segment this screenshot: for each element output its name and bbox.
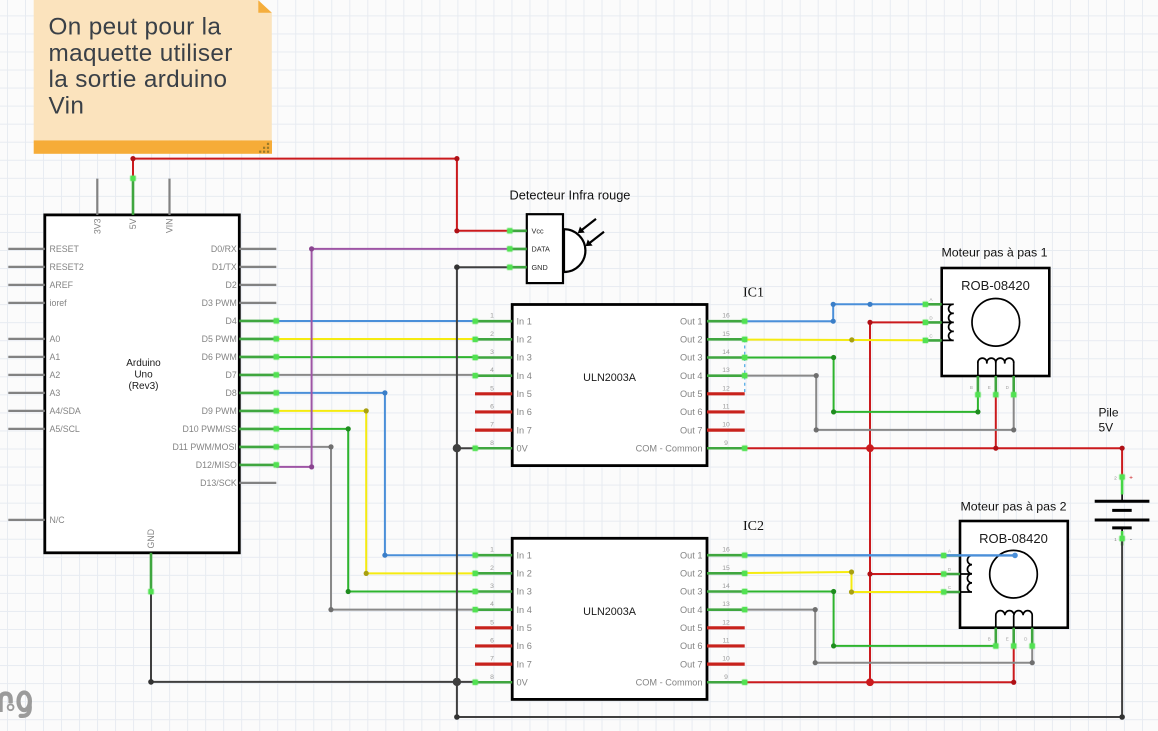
svg-text:RESET2: RESET2 <box>50 262 84 272</box>
svg-text:7: 7 <box>490 656 494 663</box>
svg-text:A2: A2 <box>50 370 61 380</box>
svg-text:In 4: In 4 <box>517 605 532 615</box>
svg-text:7: 7 <box>490 422 494 429</box>
svg-text:1: 1 <box>1114 537 1117 543</box>
svg-text:In 6: In 6 <box>517 407 532 417</box>
svg-text:D10 PWM/SS: D10 PWM/SS <box>183 424 237 434</box>
svg-text:12: 12 <box>722 619 730 626</box>
svg-text:Out 4: Out 4 <box>680 605 702 615</box>
svg-text:D13/SCK: D13/SCK <box>200 478 237 488</box>
svg-text:0V: 0V <box>517 443 529 453</box>
svg-text:D: D <box>948 567 952 572</box>
svg-text:1: 1 <box>490 547 494 554</box>
svg-text:Vin: Vin <box>49 93 85 120</box>
svg-text:11: 11 <box>722 637 729 644</box>
svg-text:9: 9 <box>724 440 728 447</box>
svg-text:COM - Common: COM - Common <box>636 677 703 687</box>
svg-text:Out 7: Out 7 <box>680 659 702 669</box>
svg-text:C: C <box>948 585 952 590</box>
svg-text:Out 2: Out 2 <box>680 335 702 345</box>
svg-text:Out 6: Out 6 <box>680 641 702 651</box>
svg-text:Out 5: Out 5 <box>680 389 702 399</box>
svg-text:Out 1: Out 1 <box>680 316 702 326</box>
svg-text:In 1: In 1 <box>517 316 532 326</box>
svg-text:6: 6 <box>490 637 494 644</box>
svg-text:(Rev3): (Rev3) <box>128 381 158 392</box>
svg-text:Uno: Uno <box>134 370 153 381</box>
svg-text:Moteur pas à pas 2: Moteur pas à pas 2 <box>960 500 1066 514</box>
svg-text:3V3: 3V3 <box>92 218 102 234</box>
svg-text:IC1: IC1 <box>743 286 764 301</box>
svg-text:In 6: In 6 <box>517 641 532 651</box>
svg-text:GND: GND <box>532 263 548 272</box>
svg-text:D: D <box>1006 385 1010 390</box>
svg-text:C: C <box>929 333 933 338</box>
svg-text:A4/SDA: A4/SDA <box>50 406 81 416</box>
svg-text:5V: 5V <box>1099 421 1114 435</box>
svg-text:ULN2003A: ULN2003A <box>583 372 637 384</box>
svg-text:A: A <box>929 297 932 302</box>
svg-text:15: 15 <box>722 331 730 338</box>
svg-text:ROB-08420: ROB-08420 <box>961 278 1030 293</box>
svg-text:D8: D8 <box>226 388 237 398</box>
svg-text:In 5: In 5 <box>517 389 532 399</box>
svg-text:Moteur pas à pas 1: Moteur pas à pas 1 <box>941 246 1047 260</box>
svg-text:13: 13 <box>722 601 730 608</box>
svg-text:11: 11 <box>722 403 729 410</box>
svg-text:Out 3: Out 3 <box>680 587 702 597</box>
svg-text:In 5: In 5 <box>517 623 532 633</box>
svg-text:14: 14 <box>722 349 730 356</box>
svg-text:A0: A0 <box>50 334 61 344</box>
svg-text:Out 1: Out 1 <box>680 550 702 560</box>
svg-text:D: D <box>1024 637 1028 642</box>
svg-text:ULN2003A: ULN2003A <box>583 606 637 618</box>
svg-text:In 2: In 2 <box>517 335 532 345</box>
svg-text:GND: GND <box>146 529 156 549</box>
svg-text:D1/TX: D1/TX <box>212 262 237 272</box>
svg-text:D4: D4 <box>226 316 237 326</box>
svg-text:3: 3 <box>490 349 494 356</box>
svg-text:5: 5 <box>490 385 494 392</box>
svg-text:Out 4: Out 4 <box>680 371 702 381</box>
svg-text:Arduino: Arduino <box>126 358 161 369</box>
svg-text:16: 16 <box>722 547 730 554</box>
svg-text:Out 3: Out 3 <box>680 353 702 363</box>
svg-text:2: 2 <box>1114 476 1117 482</box>
svg-text:5V: 5V <box>128 218 138 229</box>
svg-text:D2: D2 <box>226 280 237 290</box>
svg-text:D: D <box>929 315 933 320</box>
svg-text:+: + <box>1129 475 1133 482</box>
svg-text:8: 8 <box>490 440 494 447</box>
svg-text:In 2: In 2 <box>517 569 532 579</box>
svg-text:B: B <box>970 385 973 390</box>
svg-text:Pile: Pile <box>1099 406 1119 420</box>
svg-text:A3: A3 <box>50 388 61 398</box>
svg-text:10: 10 <box>722 656 730 663</box>
svg-text:12: 12 <box>722 385 730 392</box>
svg-text:On peut pour la: On peut pour la <box>49 14 222 41</box>
svg-text:la sortie arduino: la sortie arduino <box>49 66 228 93</box>
svg-text:B: B <box>988 637 991 642</box>
svg-text:Detecteur Infra rouge: Detecteur Infra rouge <box>510 188 631 203</box>
svg-text:D11 PWM/MOSI: D11 PWM/MOSI <box>172 442 236 452</box>
svg-text:1: 1 <box>490 313 494 320</box>
svg-text:E: E <box>988 385 991 390</box>
svg-text:Out 7: Out 7 <box>680 425 702 435</box>
svg-text:9: 9 <box>724 674 728 681</box>
svg-text:D0/RX: D0/RX <box>211 244 237 254</box>
svg-text:13: 13 <box>722 367 730 374</box>
svg-text:IC2: IC2 <box>743 519 764 534</box>
svg-text:Vcc: Vcc <box>532 227 545 236</box>
svg-text:In 1: In 1 <box>517 550 532 560</box>
svg-text:D3 PWM: D3 PWM <box>202 298 237 308</box>
svg-text:A: A <box>948 549 951 554</box>
svg-text:In 7: In 7 <box>517 425 532 435</box>
svg-text:In 3: In 3 <box>517 587 532 597</box>
svg-text:N/C: N/C <box>50 515 66 525</box>
svg-text:A5/SCL: A5/SCL <box>50 424 80 434</box>
svg-text:In 4: In 4 <box>517 371 532 381</box>
svg-text:In 7: In 7 <box>517 659 532 669</box>
svg-text:In 3: In 3 <box>517 353 532 363</box>
svg-text:D9 PWM: D9 PWM <box>202 406 237 416</box>
svg-text:14: 14 <box>722 583 730 590</box>
svg-text:D5 PWM: D5 PWM <box>202 334 237 344</box>
svg-text:5: 5 <box>490 619 494 626</box>
svg-text:8: 8 <box>490 674 494 681</box>
svg-text:4: 4 <box>490 601 494 608</box>
svg-text:2: 2 <box>490 565 494 572</box>
svg-text:DATA: DATA <box>532 245 551 254</box>
svg-text:maquette utiliser: maquette utiliser <box>49 40 233 67</box>
svg-text:15: 15 <box>722 565 730 572</box>
svg-text:AREF: AREF <box>50 280 74 290</box>
svg-text:10: 10 <box>722 422 730 429</box>
svg-text:ioref: ioref <box>50 298 68 308</box>
svg-text:0V: 0V <box>517 677 529 687</box>
svg-text:E: E <box>1006 637 1009 642</box>
svg-text:Out 2: Out 2 <box>680 569 702 579</box>
svg-text:D7: D7 <box>226 370 237 380</box>
svg-text:COM - Common: COM - Common <box>636 443 703 453</box>
svg-text:6: 6 <box>490 403 494 410</box>
svg-text:VIN: VIN <box>165 219 175 234</box>
svg-text:D6 PWM: D6 PWM <box>202 352 237 362</box>
svg-text:Out 5: Out 5 <box>680 623 702 633</box>
svg-text:2: 2 <box>490 331 494 338</box>
svg-text:3: 3 <box>490 583 494 590</box>
svg-text:ROB-08420: ROB-08420 <box>979 531 1048 546</box>
svg-text:-: - <box>1130 536 1132 543</box>
svg-text:A1: A1 <box>50 352 61 362</box>
svg-text:D12/MISO: D12/MISO <box>196 460 237 470</box>
svg-text:RESET: RESET <box>50 244 80 254</box>
svg-text:4: 4 <box>490 367 494 374</box>
svg-text:16: 16 <box>722 313 730 320</box>
svg-text:Out 6: Out 6 <box>680 407 702 417</box>
